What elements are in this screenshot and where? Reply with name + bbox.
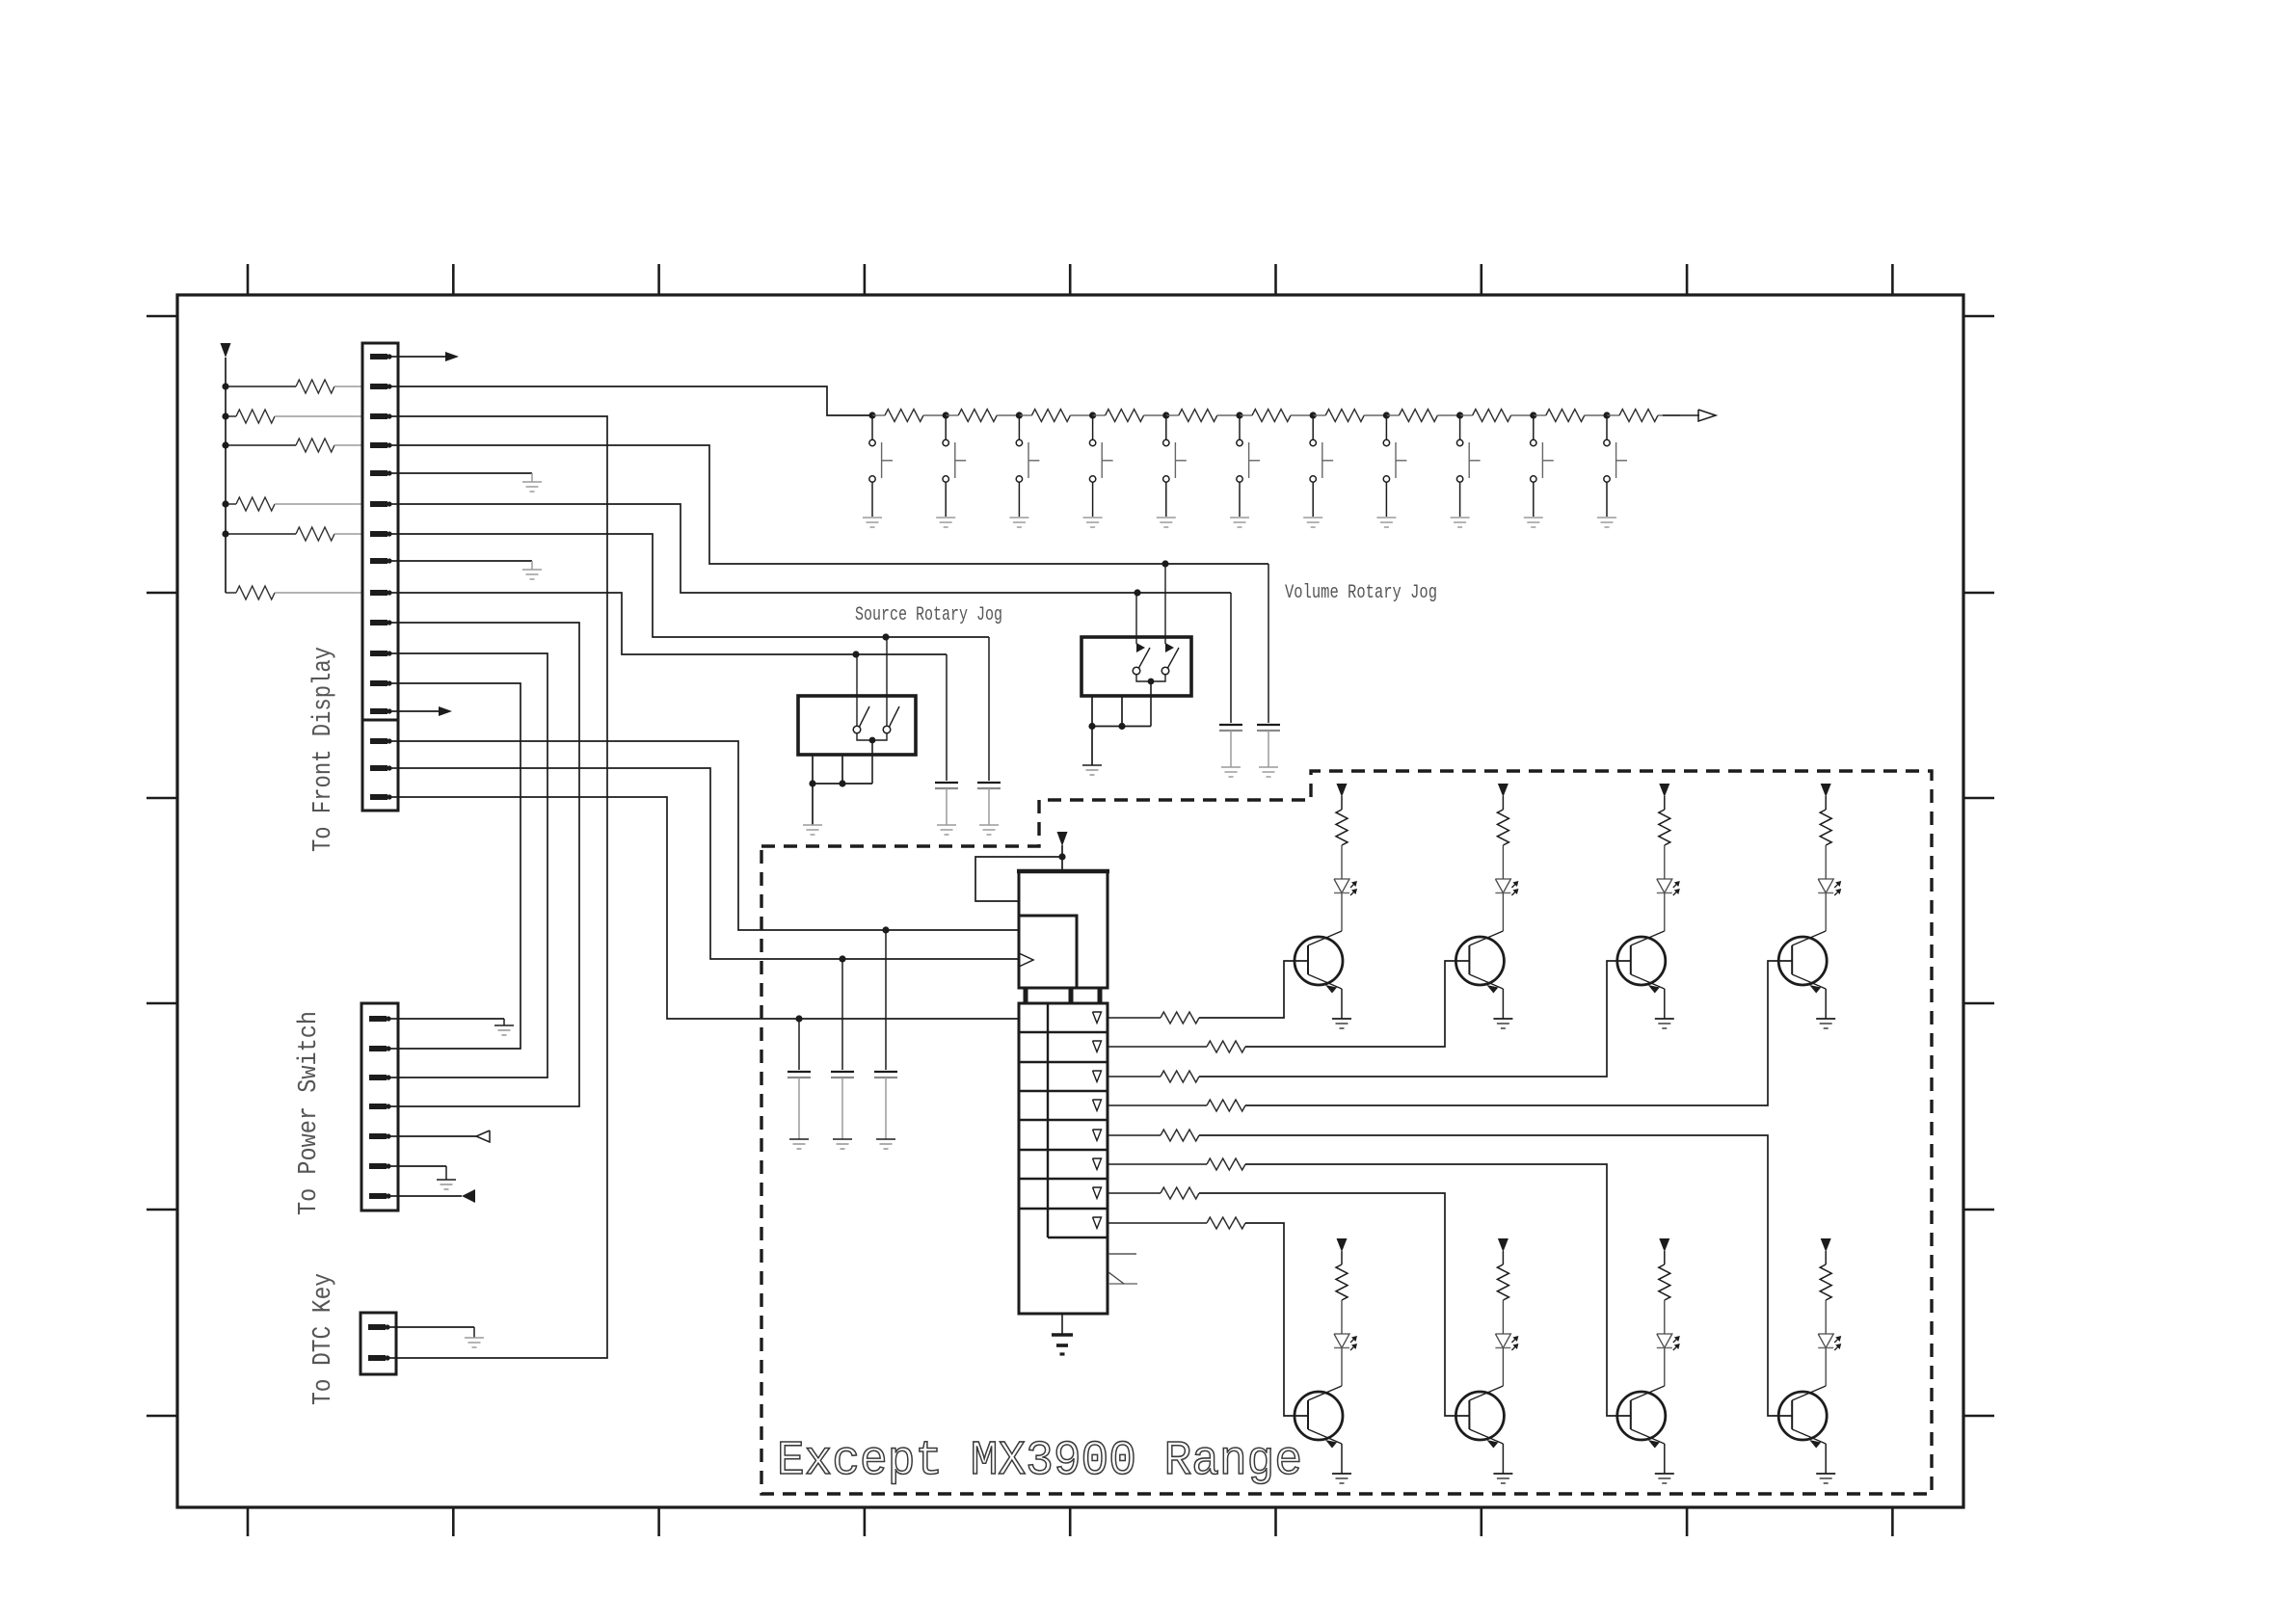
pin CN1-4 [370,442,387,448]
buffer U1-7 triangle [1093,1187,1102,1199]
node U1-vcc [1058,853,1065,860]
resistor RL5 (ladder) [1166,414,1179,416]
dashed box Except MX3900 Range [761,771,1932,1494]
power arrow 7 [1659,1238,1669,1252]
capacitor C4 [1257,724,1280,726]
pin CN2-3 [369,1075,387,1080]
wire CN1-1 output arrow [398,356,445,358]
transistor Q7 [1617,1392,1666,1440]
node ladder-4 [1089,412,1096,418]
wire CN1-2 to key ladder [398,386,872,415]
wire S1 bottom pins [812,755,814,784]
node ladder-10 [1530,412,1536,418]
pin CN1-12 [370,680,387,686]
pin CN1-15 [370,765,387,771]
resistor R2 (key matrix row) [226,386,296,387]
sheet zone ticks left [147,315,177,318]
resistor RL8 (ladder) [1386,414,1399,416]
wire CN1-11 to power switch pin3 [398,653,547,1078]
wire D5 cathode [1341,1348,1343,1387]
ground C4 [1259,766,1278,768]
wire U1-7 to transistor base [1199,1193,1469,1416]
ground Q8 [1816,1473,1835,1475]
node S1-p1 [809,780,815,786]
wire CN1-7 to source jog right contact [398,534,989,637]
clock input U1 [1019,953,1033,967]
transistor Q8 [1778,1392,1827,1440]
wire CN1-13 output arrow [398,710,439,712]
capacitor C7 [874,1071,897,1073]
ground Q1 [1332,1018,1351,1020]
switch SW10 (key) [1533,415,1535,439]
resistor RL9 (ladder) [1460,414,1473,416]
node source-left [852,651,859,657]
switch S2b [1161,667,1169,675]
ground SW2 [936,517,955,519]
resistor R6 [1497,1264,1508,1300]
ground Q3 [1655,1018,1674,1020]
IC U1 inner block [1019,916,1077,988]
resistor R8 [1820,1264,1831,1300]
pin CN2-6 [369,1163,387,1169]
resistor RB4 (base) [1108,1104,1207,1106]
ground C6 [833,1138,852,1140]
wire C6 lead [841,959,843,1070]
resistor RB7 (base) [1108,1192,1161,1194]
sheet zone ticks bottom [247,1507,250,1536]
node ladder-6 [1236,412,1242,418]
resistor RL6 (ladder) [1240,414,1252,416]
switch SW9 (key) [1459,415,1461,439]
wire volume cap C3 lead [1230,593,1232,723]
resistor R5 [1336,1264,1348,1300]
switch SW1 (key) [871,415,873,439]
wire CN2-7 output (filled arrow) [398,1195,462,1197]
ground CN1-5 [522,481,542,483]
wire U1 ground stem [1061,1314,1063,1335]
svg-text:To DTC Key: To DTC Key [309,1273,338,1405]
LED D6 [1495,1334,1510,1348]
switch SW4 (key) [1092,415,1094,439]
node bus-R2 [222,383,228,389]
wire CN2-5 output (open arrow) [398,1135,476,1137]
LED D5 [1334,1334,1349,1348]
pin CN1-11 [370,651,387,656]
capacitor C6 [831,1071,854,1073]
wire U1-3 to transistor base [1199,961,1631,1077]
switch S1b [883,726,891,733]
wire ladder output [1663,414,1699,416]
node ladder-8 [1383,412,1390,418]
node S1-p2 [839,780,845,786]
wire D1 cathode [1341,893,1343,932]
wire CN1-12 to power switch pin2 [398,683,521,1049]
switch SW7 (key) [1312,415,1314,439]
resistor RL11 (ladder) [1607,414,1619,416]
wire CN1-15 to U1 input [398,768,1019,959]
connector CN2 To Power Switch [361,1003,398,1211]
node source-right [882,633,889,640]
ground Q2 [1493,1018,1512,1020]
wire CN2-1 to ground [398,1018,504,1020]
node bus-R7 [222,530,228,537]
ground SW10 [1524,517,1543,519]
arrow S2a [1136,643,1145,652]
pin CN1-10 [370,620,387,625]
switch SW5 (key) [1165,415,1167,439]
node ladder-9 [1456,412,1463,418]
pin CN1-3 [370,413,387,419]
power feed arrow top-left [221,343,231,358]
resistor RB8 (base) [1108,1222,1207,1224]
resistor R9 (key matrix row) [226,592,236,594]
wire CN1-8 to ground [398,560,532,562]
resistor R4 [1820,810,1831,845]
IC U1 upper block [1019,871,1108,988]
node S2-p2 [1118,723,1125,730]
wire Q4 emitter [1825,989,1827,1019]
ground SW7 [1303,517,1322,519]
power arrow 1 [1337,784,1348,797]
resistor RB1 (base) [1108,1017,1161,1019]
wire bus vertical [225,358,227,593]
arrow ladder output (open) [1698,410,1716,421]
power arrow 8 [1821,1238,1831,1252]
wire U1 vcc loop [975,857,1062,901]
sheet zone ticks top [247,264,250,295]
power arrow U1 VCC [1057,832,1068,846]
connector CN1 To Front Display [362,343,398,720]
resistor R3 (key matrix row) [226,415,236,417]
pin CN1-16 [370,794,387,800]
power arrow 5 [1337,1238,1348,1252]
power arrow 3 [1659,784,1669,797]
wire CN1-10 to power switch pin4 [398,623,579,1106]
LED D2 [1495,879,1510,893]
buffer U1-2 triangle [1093,1041,1102,1052]
resistor R3 [1659,810,1670,845]
ground SW11 [1597,517,1616,519]
wire S2 bottom pins [1091,696,1093,727]
resistor R7 [1659,1264,1670,1300]
buffer U1-4 triangle [1093,1100,1102,1111]
wire Q1 emitter [1341,989,1343,1019]
wire source cap C1 lead [946,654,948,781]
pin CN1-13 [370,708,387,714]
wire D2 cathode [1502,893,1504,932]
node ladder-5 [1162,412,1169,418]
wire U1-5 to transistor base [1199,1135,1792,1416]
wire D6 cathode [1502,1348,1504,1387]
power arrow 2 [1498,784,1508,797]
resistor RB6 (base) [1108,1163,1207,1165]
resistor R2 [1497,810,1508,845]
node in-6 [839,955,845,962]
switch SW11 (key) [1606,415,1608,439]
wire S1 common [857,733,887,740]
wire CN1-5 to ground [398,472,532,474]
LED D4 [1818,879,1833,893]
wire CN1-4 to volume jog right contact [398,445,1268,564]
rotary encoder S1 Source Rotary Jog box [798,696,916,755]
pin CN1-5 [370,470,387,476]
switch SW3 (key) [1018,415,1020,439]
wire volume cap C4 lead [1268,564,1269,723]
ground Q6 [1493,1473,1512,1475]
transistor Q5 [1295,1392,1343,1440]
wire D4 cathode [1825,893,1827,932]
wire CN3-1 to ground [396,1326,474,1328]
ground Q5 [1332,1473,1351,1475]
svg-text:To Front Display: To Front Display [309,647,338,852]
pin CN2-4 [369,1104,387,1109]
arrow CN2-5 open triangle [476,1131,490,1142]
wire S2 contact feeds [1135,593,1137,644]
ground SW1 [863,517,882,519]
wire Q3 emitter [1664,989,1666,1019]
resistor RL3 (ladder) [1019,414,1031,416]
ground C7 [876,1138,895,1140]
ground Q7 [1655,1473,1674,1475]
pin CN1-1 [370,354,387,359]
IC U1 row divider [1047,1003,1049,1237]
IC U1 legs [1024,988,1028,1003]
wire U1 aux output 2 with clock mark [1108,1283,1137,1285]
ground CN3-1 [465,1337,484,1339]
wire D8 cathode [1825,1348,1827,1387]
node bus-R3 [222,412,228,419]
resistor RL2 (ladder) [946,414,958,416]
LED D1 [1334,879,1349,893]
node S2-p1 [1088,723,1095,730]
LED D3 [1657,879,1672,893]
wire CN2-6 to ground [398,1165,446,1167]
wire U1-4 to transistor base [1245,961,1792,1105]
capacitor C2 [977,782,1001,784]
power arrow 4 [1821,784,1831,797]
node ladder-1 [868,412,875,418]
ground C2 [979,824,999,826]
resistor RB2 (base) [1108,1046,1207,1048]
switch S1a [853,726,861,733]
switch SW2 (key) [945,415,947,439]
ground CN1-8 [522,569,542,571]
wire C5 lead [798,1019,800,1070]
wire CN1-3 to DTC key [396,416,607,1358]
pin CN2-5 [369,1133,387,1139]
arrow CN2-7 filled [462,1189,475,1203]
ground C1 [937,824,956,826]
transistor Q2 [1455,937,1504,985]
node in-5 [795,1015,802,1022]
pin CN3-1 [368,1324,386,1330]
switch SW8 (key) [1385,415,1387,439]
wire Q5 emitter [1341,1444,1343,1474]
buffer U1-6 triangle [1093,1158,1102,1170]
ground SW9 [1451,517,1470,519]
node bus-R6 [222,500,228,507]
wire D3 cathode [1664,893,1666,932]
wire U1-1 to transistor base [1199,961,1308,1018]
rotary encoder S2 Volume Rotary Jog box [1081,637,1191,696]
wire U1 aux output 1 [1108,1253,1136,1255]
node volume-right [1161,560,1168,567]
transistor Q1 [1295,937,1343,985]
switch SW6 (key) [1239,415,1241,439]
ground C5 [789,1138,809,1140]
ground SW8 [1376,517,1396,519]
node in-7 [882,926,889,933]
ground Q4 [1816,1018,1835,1020]
ground SW5 [1157,517,1176,519]
node ladder-7 [1310,412,1317,418]
resistor RB3 (base) [1108,1076,1161,1078]
node ladder-3 [1016,412,1023,418]
wire U1-8 to transistor base [1245,1223,1308,1416]
resistor R4 (key matrix row) [226,444,296,446]
wire Q8 emitter [1825,1444,1827,1474]
wire S1 contact feeds [856,654,858,726]
ground CN2-6 [437,1179,456,1181]
resistor RL10 (ladder) [1534,414,1546,416]
arrow S2b [1165,643,1174,652]
ground C3 [1221,766,1241,768]
pin CN1-7 [370,531,387,537]
wire CN1-6 to volume jog left contact [398,504,1231,593]
power arrow 6 [1498,1238,1508,1252]
LED D7 [1657,1334,1672,1348]
LED D8 [1818,1334,1833,1348]
svg-text:Except MX3900 Range: Except MX3900 Range [777,1434,1302,1489]
ground SW4 [1083,517,1103,519]
pin CN1-14 [370,738,387,744]
wire source cap C2 lead [988,637,990,781]
node volume-left [1134,589,1140,596]
transistor Q6 [1455,1392,1504,1440]
buffer U1-3 triangle [1093,1071,1102,1082]
capacitor C1 [935,782,958,784]
buffer U1-8 triangle [1093,1217,1102,1229]
transistor Q4 [1778,937,1827,985]
sheet zone ticks right [1963,315,1994,318]
pin CN2-7 [369,1193,387,1199]
wire Q2 emitter [1502,989,1504,1019]
wire Q6 emitter [1502,1444,1504,1474]
buffer U1-5 triangle [1093,1130,1102,1141]
sheet border frame [177,295,1963,1507]
capacitor C3 [1219,724,1242,726]
pin CN2-2 [369,1046,387,1051]
switch S2a [1133,667,1140,675]
ground CN2-1 [494,1024,514,1026]
wire S2 common [1136,675,1165,681]
svg-text:Volume Rotary Jog: Volume Rotary Jog [1285,582,1437,604]
IC U1 lower block (driver array) [1019,1003,1108,1314]
node ladder-2 [943,412,949,418]
svg-text:Source Rotary Jog: Source Rotary Jog [855,604,1002,626]
svg-text:To Power Switch: To Power Switch [295,1011,324,1215]
connector CN3 To DTC Key [360,1313,396,1374]
pin CN1-2 [370,384,387,389]
ground S1 [803,824,822,826]
wire U1-6 to transistor base [1245,1164,1631,1416]
wire D7 cathode [1664,1348,1666,1387]
capacitor C5 [788,1071,811,1073]
pin CN3-2 [368,1355,386,1361]
node bus-R4 [222,441,228,448]
ground SW6 [1230,517,1249,519]
wire CN1-9 to source jog left contact [398,593,947,654]
pin CN1-9 [370,590,387,596]
wire U1-2 to transistor base [1245,961,1469,1047]
ground SW3 [1009,517,1028,519]
ground U1 [1052,1333,1073,1337]
resistor R6 (key matrix row) [226,503,236,505]
ground S2 [1082,764,1102,766]
pin CN1-6 [370,501,387,507]
resistor RL4 (ladder) [1093,414,1106,416]
wire Q7 emitter [1664,1444,1666,1474]
transistor Q3 [1617,937,1666,985]
resistor R7 (key matrix row) [226,533,296,535]
resistor RL7 (ladder) [1313,414,1325,416]
buffer U1-1 triangle [1093,1012,1102,1024]
pin CN1-8 [370,558,387,564]
resistor R1 [1336,810,1348,845]
resistor RB5 (base) [1108,1134,1161,1136]
wire CN1-14 to U1 input [398,741,1019,930]
wire CN1-16 to U1 input [398,797,1019,1019]
pin CN2-1 [369,1016,387,1022]
resistor RL1 (ladder) [872,414,885,416]
node ladder-11 [1603,412,1610,418]
wire C7 lead [885,930,887,1070]
